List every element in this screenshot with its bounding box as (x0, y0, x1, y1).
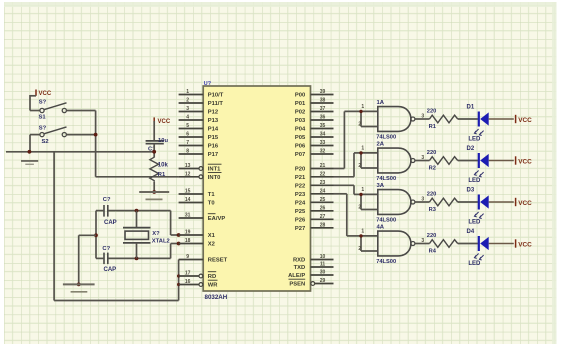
wire R1 to LED (458, 118, 478, 120)
svg-text:28: 28 (320, 222, 326, 228)
junction crystal bottom (135, 257, 139, 261)
svg-text:2: 2 (186, 98, 189, 104)
svg-text:8032AH: 8032AH (205, 294, 228, 301)
svg-text:220: 220 (427, 192, 437, 198)
svg-text:D3: D3 (467, 188, 475, 194)
pin 19 X1 (179, 230, 216, 240)
pin 33 P06 (295, 140, 334, 150)
svg-text:TXD: TXD (294, 265, 306, 271)
pin 11 TXD (294, 262, 334, 272)
svg-text:P04: P04 (295, 127, 306, 133)
wire ground loop right vertical to RESET (178, 260, 180, 301)
wire P21 to gate 2A (334, 153, 362, 177)
pin 24 P23 (295, 188, 334, 198)
svg-text:P14: P14 (208, 127, 219, 133)
junction WR (177, 283, 180, 286)
crystal X? XTAL2 (123, 211, 170, 259)
svg-text:VCC: VCC (518, 117, 532, 124)
svg-text:P25: P25 (295, 209, 306, 215)
pin 14 T0 (179, 197, 215, 207)
pin 31 EA/VP (179, 213, 226, 223)
resistor R3 220 (427, 192, 458, 214)
junction gate 2 input tie (359, 151, 362, 154)
LED D1 (467, 105, 489, 143)
svg-text:LED: LED (468, 137, 481, 143)
svg-text:P22: P22 (295, 183, 305, 189)
svg-text:74LS00: 74LS00 (376, 218, 396, 224)
wire LED D1 to VCC (489, 118, 514, 120)
svg-text:2A: 2A (377, 141, 385, 147)
svg-text:24: 24 (320, 188, 326, 194)
svg-text:P01: P01 (295, 101, 306, 107)
svg-text:27: 27 (320, 214, 326, 220)
svg-text:35: 35 (320, 123, 326, 129)
pin 25 P24 (295, 197, 334, 207)
svg-text:6: 6 (186, 132, 189, 138)
pin 32 P07 (295, 149, 334, 159)
svg-text:X2: X2 (208, 242, 215, 248)
svg-text:VCC: VCC (158, 119, 171, 125)
svg-text:18: 18 (185, 238, 191, 244)
pin 34 P05 (295, 132, 334, 142)
pin 12 INT0 (179, 171, 222, 181)
power VCC port (switch pull-up) (36, 90, 52, 97)
capacitor C? CAP lower (102, 246, 116, 273)
svg-text:9: 9 (186, 254, 189, 260)
svg-text:PSEN: PSEN (289, 282, 305, 288)
pin 29 PSEN (289, 278, 334, 288)
svg-text:R2: R2 (429, 166, 436, 172)
wire caps left rail (95, 211, 97, 259)
wire ground branch (79, 235, 96, 284)
svg-text:10: 10 (320, 254, 326, 260)
svg-text:14: 14 (185, 197, 191, 203)
svg-text:29: 29 (320, 278, 326, 284)
svg-text:P21: P21 (295, 175, 306, 181)
pin 1 P10/T (179, 89, 224, 99)
ground symbol near switches (21, 161, 38, 164)
pin 30 ALE/P (288, 270, 333, 280)
svg-text:2: 2 (358, 246, 361, 252)
wire R3 to LED (458, 201, 478, 203)
svg-text:VCC: VCC (518, 200, 532, 207)
svg-text:31: 31 (185, 213, 191, 219)
pin 6 P15 (179, 132, 219, 142)
svg-text:22: 22 (320, 171, 326, 177)
pin 22 P21 (295, 171, 334, 181)
pin 9 RESET (179, 254, 228, 264)
svg-text:R1: R1 (429, 124, 436, 130)
junction X2 (177, 242, 181, 246)
svg-text:3: 3 (186, 106, 189, 112)
power VCC port at D4 (516, 239, 532, 248)
junction caps rail to ground branch (94, 233, 98, 237)
svg-text:P02: P02 (295, 110, 305, 116)
wire gate 3 output (415, 201, 430, 203)
switch S2 (label S?) (39, 125, 67, 145)
resistor R4 220 (427, 233, 458, 255)
capacitor C1 10u (146, 138, 169, 153)
wire S2 left to ground junction (30, 135, 40, 152)
svg-text:1: 1 (361, 146, 364, 152)
junction ground net at switches (28, 150, 32, 154)
pin 5 P14 (179, 123, 219, 133)
pin 8 P17 (179, 149, 219, 159)
wire to X2 pin (171, 244, 179, 259)
pin 35 P04 (295, 123, 334, 133)
svg-text:R3: R3 (429, 207, 436, 213)
svg-text:CAP: CAP (104, 220, 117, 226)
wire ground horizontal net (6, 151, 154, 153)
junction gate 1 input tie (359, 110, 362, 113)
svg-text:LED: LED (468, 178, 481, 184)
pin 16 WR (179, 279, 219, 289)
svg-text:1A: 1A (377, 100, 385, 106)
svg-text:P03: P03 (295, 118, 306, 124)
pin 10 RXD (293, 254, 334, 264)
svg-text:1: 1 (361, 187, 364, 193)
wire gate 2 output (415, 160, 430, 162)
switch S1 (label S?) (39, 99, 67, 120)
svg-text:3A: 3A (377, 183, 385, 189)
svg-text:INT1: INT1 (208, 167, 221, 173)
svg-text:37: 37 (320, 106, 326, 112)
pin 37 P02 (295, 106, 334, 116)
svg-text:S2: S2 (42, 139, 49, 145)
svg-text:15: 15 (185, 189, 191, 195)
power VCC port at D1 (516, 115, 532, 124)
svg-text:X?: X? (152, 231, 160, 237)
LED D2 (467, 146, 489, 184)
pin 38 P01 (295, 98, 334, 108)
svg-text:220: 220 (427, 150, 437, 156)
op gate U3 74LS00 3A NAND (358, 183, 424, 224)
svg-text:VCC: VCC (39, 91, 52, 97)
wire LED D3 to VCC (489, 201, 514, 203)
svg-text:R4: R4 (429, 249, 437, 255)
pin 17 RD (179, 271, 217, 281)
svg-text:26: 26 (320, 205, 326, 211)
wire lower cap row (96, 257, 171, 259)
svg-text:D2: D2 (467, 146, 475, 152)
svg-text:74LS00: 74LS00 (376, 259, 396, 265)
svg-text:P13: P13 (208, 118, 219, 124)
wire R1 to ground (153, 182, 155, 192)
svg-text:C?: C? (103, 197, 111, 203)
svg-text:36: 36 (320, 115, 326, 121)
svg-text:S?: S? (39, 99, 47, 105)
op gate U4 74LS00 4A NAND (358, 224, 424, 265)
svg-text:P26: P26 (295, 217, 306, 223)
svg-text:P06: P06 (295, 144, 306, 150)
IC U? 8032AH body (203, 81, 310, 301)
svg-text:4A: 4A (377, 224, 385, 230)
svg-text:2: 2 (358, 122, 361, 128)
resistor R2 220 (427, 150, 458, 172)
svg-text:P24: P24 (295, 200, 306, 206)
svg-text:74LS00: 74LS00 (376, 176, 396, 182)
power VCC port (reset) (154, 117, 171, 125)
svg-text:1: 1 (361, 104, 364, 110)
svg-text:P23: P23 (295, 192, 306, 198)
capacitor C? CAP upper (103, 197, 117, 226)
svg-text:P20: P20 (295, 167, 305, 173)
svg-text:1: 1 (186, 89, 189, 95)
svg-text:16: 16 (185, 279, 191, 285)
svg-text:P17: P17 (208, 152, 218, 158)
junction crystal top (135, 209, 139, 213)
wire R4 to LED (458, 243, 478, 245)
op gate U1 74LS00 1A NAND (358, 100, 424, 141)
pin 15 T1 (179, 189, 216, 199)
ground symbol under caps (63, 284, 95, 291)
svg-text:P27: P27 (295, 226, 305, 232)
svg-text:P11/T: P11/T (208, 101, 224, 107)
junction C1/R1 node (152, 150, 156, 154)
wire upper cap row (96, 210, 171, 212)
svg-text:X1: X1 (208, 233, 216, 239)
svg-text:U?: U? (204, 81, 211, 87)
svg-text:LED: LED (468, 220, 481, 226)
pin 13 INT1 (179, 163, 222, 173)
LED D3 (467, 188, 489, 226)
svg-text:P10/T: P10/T (208, 93, 224, 99)
power VCC port at D2 (516, 156, 532, 165)
svg-text:RXD: RXD (293, 258, 305, 264)
svg-text:R1: R1 (158, 172, 166, 178)
junction R1 ground (152, 190, 156, 194)
wire LED D4 to VCC (489, 243, 514, 245)
wire P20 to gate 1A (334, 111, 362, 168)
wire gate 4 output (415, 243, 430, 245)
svg-text:EA/VP: EA/VP (208, 216, 226, 222)
wire S1 to INT0 net vertical (67, 111, 96, 177)
wire P23 to gate 4A (334, 194, 362, 236)
svg-text:33: 33 (320, 140, 326, 146)
wire LED D2 to VCC (489, 160, 514, 162)
svg-text:220: 220 (427, 233, 437, 239)
pin 26 P25 (295, 205, 334, 215)
pin 28 P27 (295, 222, 334, 232)
svg-text:CAP: CAP (104, 267, 117, 273)
svg-text:P12: P12 (208, 110, 218, 116)
svg-text:1: 1 (361, 229, 364, 235)
svg-text:LED: LED (468, 261, 481, 267)
svg-text:S1: S1 (39, 115, 47, 121)
wire VCC to S1 (30, 95, 40, 111)
svg-text:P15: P15 (208, 135, 219, 141)
svg-text:INT0: INT0 (208, 175, 221, 181)
svg-text:D4: D4 (467, 229, 475, 235)
svg-text:25: 25 (320, 197, 326, 203)
wire INT0 net to pin 12 (96, 176, 179, 178)
wire R2 to LED (458, 160, 478, 162)
svg-text:5: 5 (186, 123, 189, 129)
svg-text:30: 30 (320, 270, 326, 276)
svg-text:7: 7 (186, 140, 189, 146)
junction at ground bar (77, 283, 81, 287)
pin 36 P03 (295, 115, 334, 125)
LED D4 (467, 229, 489, 267)
resistor R1 220 (427, 109, 458, 131)
svg-text:VCC: VCC (518, 242, 532, 249)
op gate U2 74LS00 2A NAND (358, 141, 424, 182)
junction S2/S1 net (94, 133, 98, 137)
svg-text:12: 12 (185, 171, 191, 177)
svg-text:T1: T1 (208, 192, 216, 198)
pin 4 P13 (179, 115, 219, 125)
wire P22 to gate 3A (334, 185, 362, 194)
svg-text:4: 4 (186, 115, 189, 121)
wire C1 to node (153, 144, 155, 158)
svg-text:ALE/P: ALE/P (288, 273, 305, 279)
junction gate 4 input tie (359, 234, 362, 237)
svg-text:17: 17 (185, 271, 191, 277)
ground symbol under R1 (139, 192, 169, 199)
svg-text:23: 23 (320, 180, 326, 186)
pin 2 P11/T (179, 98, 224, 108)
svg-text:8: 8 (186, 149, 189, 155)
svg-text:2: 2 (358, 205, 361, 211)
pin 39 P00 (295, 89, 334, 99)
power VCC port at D3 (516, 198, 532, 207)
svg-text:D1: D1 (467, 105, 475, 111)
svg-text:T0: T0 (208, 201, 215, 207)
pin 18 X2 (179, 238, 215, 248)
svg-text:XTAL2: XTAL2 (152, 238, 170, 244)
svg-text:S?: S? (39, 125, 47, 131)
svg-text:34: 34 (320, 132, 326, 138)
junction X1 (177, 233, 181, 237)
svg-text:19: 19 (185, 230, 191, 236)
svg-text:VCC: VCC (518, 159, 532, 166)
svg-text:13: 13 (185, 163, 191, 169)
svg-text:21: 21 (320, 163, 326, 169)
svg-text:32: 32 (320, 149, 326, 155)
pin 23 P22 (295, 180, 334, 190)
svg-text:38: 38 (320, 98, 326, 104)
wire ground loop bottom (54, 300, 179, 302)
svg-text:11: 11 (320, 262, 326, 268)
svg-text:10k: 10k (158, 163, 169, 169)
junction gate 3 input tie (359, 193, 362, 196)
wire S2 to junction on INT0 net (67, 134, 96, 136)
svg-text:39: 39 (320, 89, 326, 95)
svg-text:P05: P05 (295, 135, 306, 141)
svg-text:P07: P07 (295, 152, 305, 158)
junction RD (177, 274, 180, 277)
svg-text:10u: 10u (158, 138, 168, 144)
svg-text:2: 2 (358, 163, 361, 169)
pin 21 P20 (295, 163, 334, 173)
resistor R1 10k (150, 157, 169, 182)
svg-text:WR: WR (208, 283, 218, 289)
svg-text:P00: P00 (295, 93, 305, 99)
pin 3 P12 (179, 106, 219, 116)
pin 7 P16 (179, 140, 219, 150)
svg-text:RD: RD (208, 274, 216, 280)
wire VCC to C1 (153, 121, 155, 140)
svg-text:220: 220 (427, 109, 437, 115)
svg-text:RESET: RESET (208, 258, 228, 264)
wire gate 1 output (415, 118, 430, 120)
svg-text:P16: P16 (208, 144, 219, 150)
pin 27 P26 (295, 214, 334, 224)
svg-text:74LS00: 74LS00 (376, 135, 396, 141)
svg-text:C?: C? (102, 246, 110, 252)
wire to X1 pin (171, 211, 179, 235)
wire ground loop left vertical (53, 152, 55, 301)
